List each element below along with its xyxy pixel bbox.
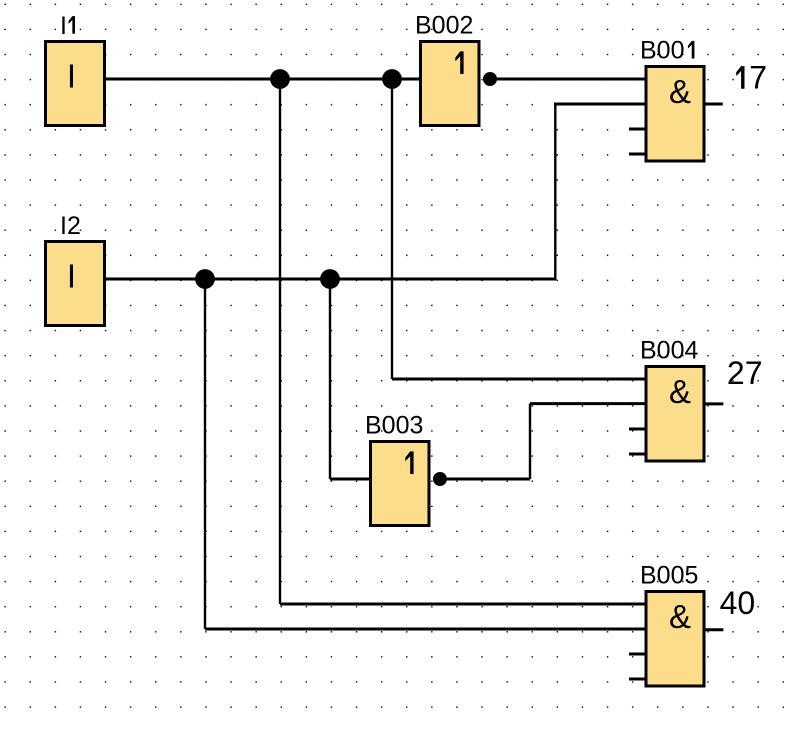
wire B003 output horizontal xyxy=(447,478,530,481)
AND gate B005 xyxy=(646,592,704,687)
wire I2 output trunk xyxy=(106,278,557,281)
stub B005 input4 xyxy=(629,678,646,681)
stub B005 input3 xyxy=(629,653,646,656)
wire horizontal to B005 input1 xyxy=(280,603,646,606)
wire I1 output trunk xyxy=(106,78,420,81)
inverter bubble at B002 output xyxy=(483,72,497,86)
svg-text:I: I xyxy=(60,12,67,40)
junction on I1 wire at x=280 xyxy=(270,69,290,89)
input block I2 xyxy=(46,242,105,326)
AND gate B001 xyxy=(646,67,704,162)
NOT gate B003 xyxy=(371,442,430,526)
svg-text:&: & xyxy=(669,598,691,635)
wire vertical drop from junction B to B004 input1 xyxy=(391,79,393,379)
inverter bubble at B003 output xyxy=(433,472,447,486)
wire horizontal to B005 input2 xyxy=(205,628,646,631)
wire B002 output to B001 input1 xyxy=(497,78,646,81)
svg-text:7: 7 xyxy=(749,60,767,96)
wire horizontal to B004 input1 xyxy=(392,378,646,381)
wire horizontal to B004 input2 xyxy=(530,402,646,405)
NOT gate B002 xyxy=(421,42,480,126)
stub B004 input3 xyxy=(629,428,646,431)
wire vertical drop from junction C to B005 input2 xyxy=(204,279,206,629)
wire vertical drop from junction A to B005 input1 xyxy=(279,79,281,604)
wire vertical drop from junction D to B003 input xyxy=(329,279,331,479)
NOT gate B002 symbol 1 xyxy=(455,51,463,74)
svg-text:&: & xyxy=(669,73,691,110)
svg-text:I2: I2 xyxy=(60,212,81,240)
svg-text:40: 40 xyxy=(720,585,756,621)
stub B005 output xyxy=(705,628,723,631)
svg-text:&: & xyxy=(669,373,691,410)
svg-text:27: 27 xyxy=(727,355,763,391)
junction on I2 wire at x=330 xyxy=(320,269,340,289)
svg-text:B003: B003 xyxy=(365,412,423,440)
junction on I1 wire at x=392 xyxy=(382,69,402,89)
stub B001 input3 xyxy=(629,128,646,131)
svg-text:I: I xyxy=(67,57,76,94)
stub B001 output xyxy=(705,103,723,106)
stub B001 input4 xyxy=(629,153,646,156)
svg-text:B002: B002 xyxy=(415,12,473,40)
svg-text:B004: B004 xyxy=(640,337,698,365)
input block I1 xyxy=(46,42,105,126)
svg-text:B00: B00 xyxy=(640,37,684,65)
wire vertical riser to B001 input2 xyxy=(554,104,556,279)
stub B004 output xyxy=(705,402,723,405)
wire to B001 input2 horizontal xyxy=(554,103,646,106)
wire vertical riser B003 output to B004 input2 xyxy=(529,404,531,479)
stub B004 input4 xyxy=(629,453,646,456)
NOT gate B003 symbol 1 xyxy=(405,451,413,474)
svg-text:I: I xyxy=(67,257,76,294)
output number 17 xyxy=(736,66,744,89)
junction on I2 wire at x=205 xyxy=(195,269,215,289)
AND gate B004 xyxy=(646,367,704,462)
wire horizontal to B003 input xyxy=(330,478,371,481)
svg-text:B005: B005 xyxy=(640,562,698,590)
